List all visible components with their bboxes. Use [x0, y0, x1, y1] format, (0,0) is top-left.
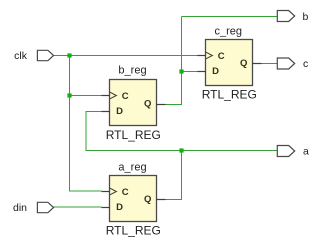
wire a net horizontal left: [86, 150, 182, 152]
svg-text:C: C: [218, 51, 225, 62]
svg-text:C: C: [122, 91, 129, 102]
register c_reg: [206, 40, 253, 86]
junction a net: [179, 148, 183, 152]
wire clk net branch to b_reg C: [70, 95, 102, 97]
svg-text:D: D: [116, 106, 123, 117]
pin stub a_reg D: [102, 207, 111, 209]
clock triangle b_reg: [110, 92, 116, 99]
wire b net to port b: [182, 16, 278, 18]
svg-text:a_reg: a_reg: [118, 161, 146, 173]
clock triangle a_reg: [110, 188, 116, 195]
wire b net branch to c_reg D: [182, 71, 198, 73]
output port b: [277, 11, 294, 22]
wire a net to port a: [182, 150, 278, 152]
pin stub c_reg C: [198, 55, 207, 57]
wire b net from b_reg Q: [166, 104, 183, 106]
wire clk net horizontal to c_reg C: [54, 55, 198, 57]
svg-text:D: D: [212, 66, 219, 77]
junction clk at b_reg C: [67, 93, 71, 97]
wire c net to port c: [262, 63, 278, 65]
pin stub b_reg C: [102, 95, 111, 97]
pin stub b_reg D: [102, 111, 111, 113]
svg-text:Q: Q: [144, 99, 151, 110]
wire a net to b_reg D: [86, 111, 102, 113]
wire clk net branch to a_reg C: [69, 190, 102, 192]
svg-text:a: a: [303, 145, 309, 157]
register a_reg: [110, 176, 157, 222]
register b_reg: [110, 80, 157, 126]
wire a net vertical up: [181, 151, 183, 201]
pin stub a_reg C: [102, 191, 111, 193]
pin stub b_reg Q: [156, 104, 166, 106]
wire a net vertical at x86: [85, 112, 87, 152]
svg-text:c: c: [303, 58, 308, 70]
output port c: [277, 58, 294, 69]
pin stub c_reg D: [198, 71, 207, 73]
svg-text:c_reg: c_reg: [215, 25, 243, 37]
wire din net: [54, 206, 102, 208]
svg-text:din: din: [13, 202, 27, 214]
svg-text:RTL_REG: RTL_REG: [202, 87, 257, 101]
junction b net at c_reg D: [179, 69, 183, 73]
svg-text:RTL_REG: RTL_REG: [106, 223, 161, 237]
pin stub c_reg Q: [252, 63, 262, 65]
input port clk: [37, 50, 53, 60]
junction clk at top: [67, 53, 71, 57]
svg-text:b_reg: b_reg: [118, 65, 146, 77]
svg-text:Q: Q: [144, 194, 151, 205]
svg-text:b: b: [303, 11, 309, 23]
wire clk net vertical trunk: [69, 56, 71, 192]
svg-text:Q: Q: [240, 58, 247, 69]
wire a net from a_reg Q: [166, 199, 183, 201]
svg-text:D: D: [116, 202, 123, 213]
input port din: [37, 202, 53, 212]
svg-text:C: C: [122, 187, 129, 198]
output port a: [277, 146, 294, 157]
clock triangle c_reg: [206, 52, 212, 59]
wire b net vertical up: [181, 17, 183, 106]
svg-text:RTL_REG: RTL_REG: [106, 128, 161, 142]
pin stub a_reg Q: [156, 199, 166, 201]
svg-text:clk: clk: [14, 50, 28, 62]
